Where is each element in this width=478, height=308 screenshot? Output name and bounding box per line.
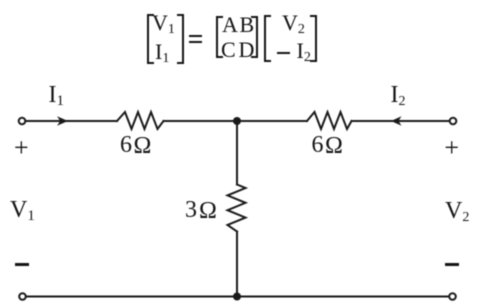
wire top-right segment xyxy=(352,120,450,122)
value label R2 6 ohm xyxy=(312,133,324,157)
resistor R2 6-ohm series right zigzag xyxy=(307,112,352,129)
value label R1 6 ohm xyxy=(120,133,132,157)
equals sign xyxy=(189,35,202,37)
matrix [V2;-I2] right-hand vector xyxy=(264,15,271,62)
label V2 port voltage xyxy=(445,199,469,223)
terminal port2 plus open circle xyxy=(450,118,457,125)
resistor R3 3-ohm shunt zigzag xyxy=(228,185,246,232)
polarity plus port2 xyxy=(444,135,459,161)
label V1 port voltage xyxy=(10,198,35,222)
wire vertical upper segment xyxy=(236,121,238,185)
label I1 current xyxy=(49,83,65,107)
polarity minus port1 xyxy=(15,263,29,265)
wire vertical lower segment xyxy=(236,232,238,297)
matrix [A B;C D] transmission parameters xyxy=(216,16,223,58)
wire top-left segment xyxy=(26,120,117,122)
node B bottom junction dot xyxy=(233,293,241,301)
polarity plus port1 xyxy=(14,135,29,161)
label I2 current xyxy=(391,83,406,107)
polarity minus port2 xyxy=(445,263,459,265)
wire top-middle-right segment xyxy=(237,120,307,122)
terminal port2 minus open circle xyxy=(449,293,456,300)
wire top-middle-left segment xyxy=(164,120,238,122)
resistor R1 6-ohm series left zigzag xyxy=(117,112,164,129)
value label R3 3 ohm xyxy=(185,198,197,222)
current arrow I2 direction xyxy=(391,116,402,125)
wire bottom segment xyxy=(26,296,449,298)
matrix [V1;I1] left-hand side of ABCD equation xyxy=(147,14,154,64)
current arrow I1 direction xyxy=(57,116,68,126)
terminal port1 minus open circle xyxy=(19,293,26,300)
node A top junction dot xyxy=(233,117,241,125)
terminal port1 plus open circle xyxy=(19,118,26,125)
